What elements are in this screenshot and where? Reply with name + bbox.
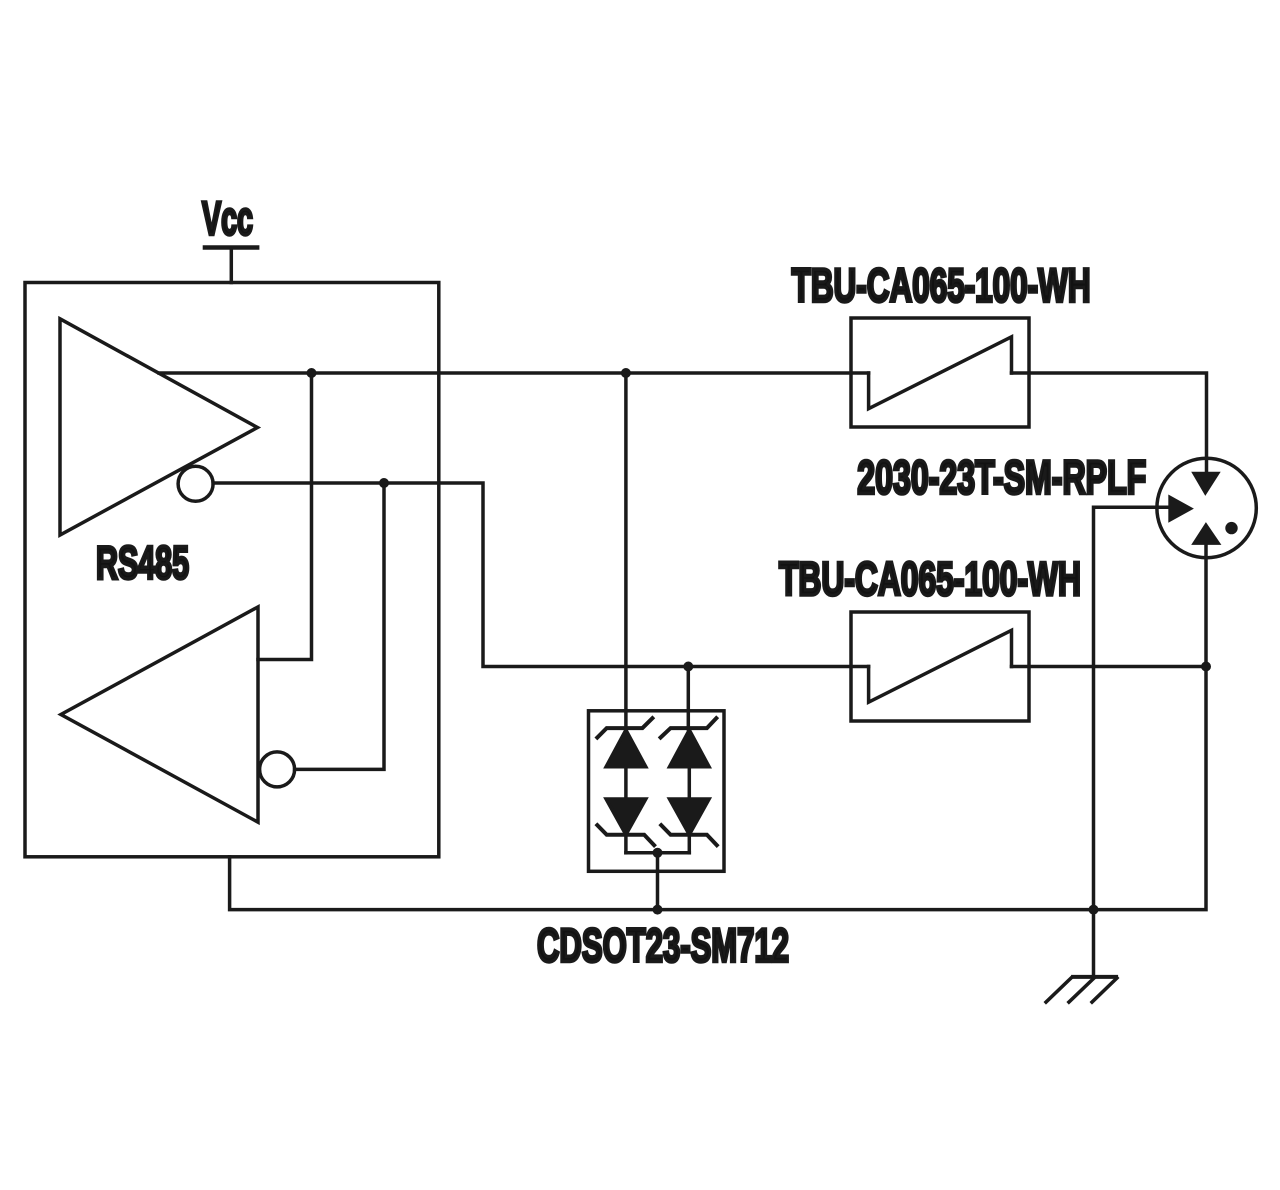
TVS array box CDSOT23-SM712 xyxy=(589,711,725,872)
node junction TBU2 out xyxy=(1201,662,1211,672)
wire: TVS right column xyxy=(687,667,691,730)
power Vcc symbol xyxy=(203,245,260,250)
ground hatch 3 xyxy=(1092,978,1117,1002)
wire: RS485 ground stub and bottom bus xyxy=(230,545,1206,910)
driver inverting bubble xyxy=(178,466,213,501)
svg-text:TBU-CA065-100-WH: TBU-CA065-100-WH xyxy=(779,552,1081,605)
node TVS pin on ground bus xyxy=(653,905,663,915)
TBU1 box xyxy=(851,318,1029,427)
TBU2 element symbol xyxy=(869,630,1012,702)
node TVS common junction xyxy=(653,848,663,858)
node ground drop on bottom bus xyxy=(1089,905,1099,915)
wire: TVS left column xyxy=(624,373,628,729)
TVS diode D2b (down) xyxy=(670,799,710,835)
connector J1 circle 2030-23T-SM-RPLF xyxy=(1157,458,1256,557)
TVS diode pair D1 bottom cathode bar xyxy=(597,825,654,845)
TVS diode pair D2 bottom cathode bar xyxy=(661,825,717,845)
node junction A to TVS left column xyxy=(621,368,631,378)
wire Vcc stem xyxy=(230,248,234,283)
ground symbol xyxy=(1071,975,1118,979)
ground hatch 1 xyxy=(1046,978,1071,1002)
TVS diode D1b (down) xyxy=(606,799,646,835)
TVS diode pair D2 top cathode bar xyxy=(661,718,717,737)
wire: junction A down to receiver input xyxy=(258,373,312,660)
wire: connector left pin to ground drop xyxy=(1094,507,1169,977)
wire D2 tail xyxy=(688,835,692,853)
driver buffer (triangle, U1 A) xyxy=(60,319,258,535)
connector pin bottom triangle xyxy=(1191,522,1221,545)
receiver inverting bubble xyxy=(260,752,295,787)
node junction B to TVS right column xyxy=(683,662,693,672)
TBU2 box xyxy=(851,612,1029,721)
TVS diode pair D1 top cathode bar xyxy=(597,718,652,737)
receiver buffer (triangle, U1 B) xyxy=(61,607,258,822)
wire TVS common pin to ground bus xyxy=(656,853,660,910)
node A junction (driver out to receiver in) xyxy=(307,368,317,378)
wire: TBU2 output to connector bottom line xyxy=(1012,665,1207,669)
wire D1 link xyxy=(624,767,628,799)
svg-text:Vcc: Vcc xyxy=(202,192,253,245)
wire: TBU1 output to connector top xyxy=(1012,373,1207,472)
connector pin top triangle xyxy=(1191,472,1221,496)
TVS diode D1a (up) xyxy=(606,730,646,767)
ground hatch 2 xyxy=(1069,978,1094,1002)
RS485 transceiver box U1 xyxy=(25,283,439,857)
wire: driver output line A to TBU1 xyxy=(159,371,869,375)
wire: receiver bubble to line B xyxy=(295,483,384,769)
TVS diode D2a (up) xyxy=(670,730,710,767)
connector pin left triangle xyxy=(1168,495,1194,523)
svg-text:2030-23T-SM-RPLF: 2030-23T-SM-RPLF xyxy=(857,451,1146,504)
wire D2 link xyxy=(688,767,692,799)
svg-text:RS485: RS485 xyxy=(96,537,189,589)
wire TVS common xyxy=(626,851,689,855)
wire D1 tail xyxy=(624,835,628,853)
connector index dot xyxy=(1225,522,1237,534)
wire: driver bubble to line B xyxy=(213,483,869,667)
svg-text:CDSOT23-SM712: CDSOT23-SM712 xyxy=(537,918,789,971)
svg-text:TBU-CA065-100-WH: TBU-CA065-100-WH xyxy=(792,259,1091,312)
node B junction (bubble wires) xyxy=(379,478,389,488)
TBU1 element symbol xyxy=(869,337,1012,409)
